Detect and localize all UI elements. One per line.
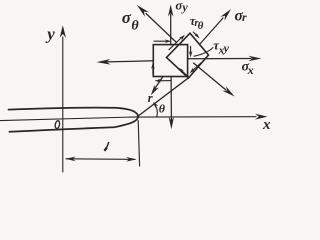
- shear ul-face arrowhead: [179, 35, 185, 41]
- shear arrow top edge shaft: [154, 40, 166, 42]
- tau_rtheta shear arrow lower-left face shaft: [182, 71, 188, 77]
- tau_rtheta shear arrow lower-right face shaft: [193, 62, 203, 71]
- shear lr-face arrowhead: [190, 68, 196, 74]
- dimension left arrowhead: [65, 157, 76, 162]
- svg-text:θ: θ: [198, 20, 204, 32]
- y-axis: [62, 37, 64, 172]
- sigma_theta up-left arrowhead: [137, 5, 149, 17]
- shear bottom arrowhead: [155, 79, 162, 83]
- theta arc: [154, 103, 158, 116]
- square element xy: [153, 45, 187, 77]
- shear arrow bottom edge shaft: [159, 80, 171, 82]
- svg-text:θ: θ: [159, 102, 166, 116]
- sigma_y down arrowhead: [169, 117, 174, 130]
- sigma_theta down-right arrowhead: [223, 86, 235, 96]
- dimension l extension line: [138, 121, 139, 167]
- sigma_theta arrow down-right shaft: [194, 63, 227, 90]
- shear right arrowhead: [189, 51, 193, 58]
- svg-text:x: x: [262, 117, 270, 133]
- sigma_r arrow down-left shaft: [155, 77, 164, 90]
- tau_rtheta shear arrow upper-left face shaft: [169, 38, 182, 50]
- node 0 origin label: [55, 120, 61, 129]
- sigma_x arrow right shaft: [188, 58, 251, 60]
- wire crack centerline: [0, 117, 138, 121]
- x-axis arrowhead: [255, 114, 268, 120]
- shear top arrowhead: [165, 39, 172, 43]
- y-axis arrowhead: [60, 25, 66, 38]
- svg-text:y: y: [45, 25, 55, 44]
- dimension l line: [66, 158, 135, 161]
- r line: [137, 78, 188, 117]
- svg-text:r: r: [148, 91, 153, 105]
- shear arrow right edge shaft: [190, 47, 192, 54]
- sigma_r down-left arrowhead: [151, 85, 159, 96]
- tau_rtheta shear arrow upper-right face: [194, 33, 199, 38]
- svg-text:θ: θ: [131, 19, 139, 34]
- shear arrow left edge shaft: [152, 67, 154, 74]
- rotated element r-theta: [167, 33, 209, 78]
- svg-text:σ: σ: [122, 8, 132, 27]
- shear left arrowhead: [151, 63, 155, 70]
- label l (crack length): [106, 142, 109, 149]
- svg-text:y: y: [222, 41, 230, 55]
- sigma_y arrow up shaft: [170, 14, 172, 45]
- sigma_y up arrowhead: [168, 5, 173, 17]
- sigma_x arrow left shaft: [107, 61, 154, 62]
- x-axis: [138, 116, 257, 118]
- tau_rtheta shear arrow lower-left face: [179, 68, 185, 73]
- svg-text:y: y: [180, 0, 188, 14]
- sigma_x left arrowhead: [97, 59, 111, 65]
- theta arc arrowhead: [153, 102, 158, 108]
- sigma_r arrow up-right shaft: [200, 18, 224, 45]
- crack outline: [9, 108, 139, 132]
- tau_xy leader line: [194, 48, 213, 57]
- sigma_y arrow down shaft: [170, 77, 172, 121]
- tau_rtheta shear arrow upper-right face shaft: [193, 32, 197, 36]
- dimension right arrowhead: [126, 157, 137, 162]
- svg-text:r: r: [242, 10, 247, 24]
- sigma_x right arrowhead: [249, 56, 262, 61]
- sigma_theta arrow up-left shaft: [146, 14, 177, 43]
- sigma_r up-right arrowhead: [220, 9, 231, 21]
- svg-text:x: x: [247, 63, 254, 77]
